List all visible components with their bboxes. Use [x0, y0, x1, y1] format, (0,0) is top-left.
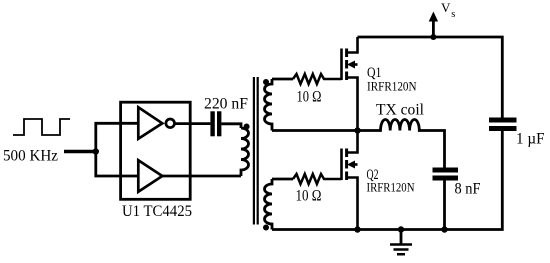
capacitor 220 nF — [210, 111, 221, 136]
wire secondary bottom to resistor — [272, 178, 293, 181]
node ground junction — [398, 226, 404, 232]
MOSFET Q2 — [342, 131, 358, 230]
svg-text:8 nF: 8 nF — [455, 180, 481, 197]
gate bar — [340, 49, 343, 81]
channel segments — [345, 49, 348, 81]
wire buffer output to primary bottom — [162, 175, 241, 178]
wire secondary top to resistor — [272, 78, 293, 81]
svg-text:s: s — [451, 9, 455, 20]
ground rail — [272, 131, 502, 230]
node primary phase dot — [244, 124, 250, 130]
node input junction — [93, 148, 99, 154]
wire input — [64, 150, 96, 153]
channel segments — [345, 149, 348, 181]
node secondary bottom phase dot — [263, 225, 269, 231]
drain stub — [347, 131, 358, 153]
capacitor 1 uF — [489, 118, 517, 132]
svg-text:220 nF: 220 nF — [204, 96, 248, 113]
top rail to Vs — [358, 37, 503, 118]
svg-text:10 Ω: 10 Ω — [297, 88, 322, 105]
svg-text:V: V — [441, 0, 451, 15]
transformer secondary top winding — [265, 79, 272, 131]
transformer primary winding — [241, 128, 249, 176]
wire cap to primary — [221, 124, 241, 128]
IC box U1 — [121, 102, 191, 199]
resistor R2 10 ohm (bottom) — [293, 174, 342, 184]
svg-text:U1 TC4425: U1 TC4425 — [122, 203, 192, 220]
wire lower branch — [96, 152, 138, 177]
inductor TX coil — [358, 119, 445, 167]
wire inverter output — [175, 122, 211, 125]
svg-text:IRFR120N: IRFR120N — [367, 180, 416, 195]
Vs arrow — [432, 20, 435, 37]
drain stub — [347, 37, 358, 53]
node Q2 source junction — [354, 226, 360, 232]
svg-text:500 KHz: 500 KHz — [3, 147, 58, 164]
source stub — [347, 178, 358, 230]
node 8nF junction — [441, 226, 447, 232]
buffer U1B — [138, 160, 162, 192]
MOSFET Q1 — [342, 37, 358, 131]
wire secondary top bottom-end to node — [272, 129, 359, 132]
svg-text:IRFR120N: IRFR120N — [367, 79, 417, 94]
transformer core — [254, 77, 258, 225]
node Vs junction — [430, 34, 436, 40]
body stub with arrow — [352, 163, 358, 166]
svg-text:1 µF: 1 µF — [516, 131, 545, 148]
wire upper branch — [96, 123, 138, 151]
inverter U1A — [138, 107, 162, 139]
body stub with arrow — [352, 63, 358, 66]
node secondary top phase dot — [263, 79, 269, 85]
node half-bridge midpoint — [354, 127, 360, 133]
source stub — [347, 78, 358, 131]
wire 8nF to ground rail — [443, 181, 446, 230]
gate bar — [340, 149, 343, 181]
svg-text:TX coil: TX coil — [376, 102, 424, 119]
svg-text:10 Ω: 10 Ω — [296, 187, 322, 204]
capacitor 8 nF — [433, 168, 459, 181]
ground symbol — [400, 230, 403, 244]
square wave source — [13, 119, 70, 135]
resistor R1 10 ohm (top) — [293, 74, 342, 84]
transformer secondary bottom winding — [265, 179, 272, 230]
